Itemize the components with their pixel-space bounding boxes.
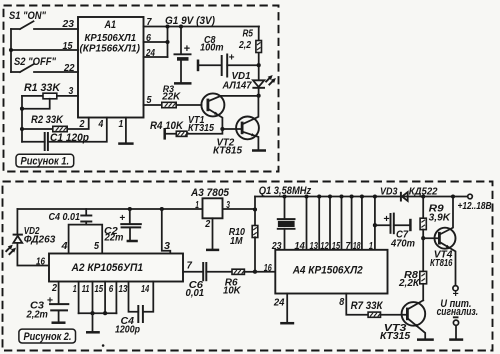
svg-text:15: 15 [94,284,103,295]
svg-text:КТ816: КТ816 [430,258,453,269]
svg-text:G1 9V (3V): G1 9V (3V) [165,15,215,27]
svg-text:23: 23 [61,19,74,30]
svg-text:2,2m: 2,2m [26,309,48,320]
svg-text:R5: R5 [243,29,254,40]
svg-text:3: 3 [69,86,74,97]
svg-text:3: 3 [164,241,171,252]
svg-text:A1: A1 [104,19,116,31]
svg-text:R4 10K: R4 10K [150,120,184,132]
svg-text:+: + [184,43,191,55]
svg-text:7: 7 [147,17,153,28]
svg-text:КТ315: КТ315 [380,331,410,342]
svg-text:(КР1566ХЛ1): (КР1566ХЛ1) [80,44,141,55]
svg-text:0,01: 0,01 [186,288,205,299]
svg-text:R2 33K: R2 33K [31,114,64,126]
svg-text:22: 22 [63,63,75,74]
svg-text:VD3: VD3 [380,186,398,197]
svg-text:ФД263: ФД263 [24,235,56,246]
svg-text:+12..18В: +12..18В [458,201,492,212]
svg-text:2,2: 2,2 [238,40,251,51]
svg-text:сигнализ.: сигнализ. [437,306,479,318]
svg-text:24: 24 [145,48,155,59]
svg-text:5: 5 [147,95,153,106]
svg-text:15: 15 [332,241,341,252]
svg-text:2: 2 [51,283,57,294]
svg-text:C1 120p: C1 120p [50,132,89,144]
svg-text:6: 6 [146,33,152,44]
svg-text:КД522: КД522 [409,186,438,197]
svg-text:1: 1 [195,200,199,211]
svg-text:АЛ147: АЛ147 [222,81,253,92]
svg-text:1: 1 [119,119,124,130]
svg-text:18: 18 [353,241,361,252]
svg-text:A3 7805: A3 7805 [190,187,230,199]
svg-text:14: 14 [294,241,305,252]
svg-text:22m: 22m [104,232,124,243]
svg-text:12: 12 [320,241,329,252]
svg-text:24: 24 [273,298,285,309]
svg-text:Рисунок 1.: Рисунок 1. [21,156,70,168]
svg-text:R1 33K: R1 33K [24,82,61,94]
svg-text:13: 13 [119,284,128,295]
svg-text:3: 3 [226,200,230,211]
svg-text:S1 "ON": S1 "ON" [9,10,47,22]
svg-text:1: 1 [73,284,77,295]
svg-text:2,2К: 2,2К [398,278,420,289]
svg-text:7: 7 [187,261,193,272]
svg-text:1: 1 [369,241,373,252]
svg-text:16: 16 [264,263,272,274]
svg-text:470m: 470m [390,239,415,250]
svg-text:R7 33К: R7 33К [351,300,384,312]
svg-text:2: 2 [79,119,85,130]
svg-text:11: 11 [82,284,90,295]
svg-text:2: 2 [204,219,210,230]
svg-text:3,9K: 3,9K [429,213,451,224]
svg-text:КР1506ХЛ1: КР1506ХЛ1 [85,33,137,44]
svg-text:C4 0.01: C4 0.01 [49,212,81,223]
svg-text:5: 5 [94,241,100,252]
svg-text:+: + [47,295,53,307]
svg-text:4: 4 [60,241,68,252]
svg-text:10K: 10K [223,286,241,297]
svg-text:S2 "OFF": S2 "OFF" [14,56,57,68]
svg-text:14: 14 [141,284,150,295]
svg-text:+: + [229,52,235,63]
svg-text:+: + [383,213,389,225]
svg-text:КТ315: КТ315 [188,123,214,134]
svg-text:16: 16 [36,257,45,268]
svg-text:Рисунок 2.: Рисунок 2. [24,331,72,343]
svg-text:1200p: 1200p [115,324,140,335]
svg-text:7: 7 [346,241,351,252]
svg-text:100m: 100m [200,43,224,54]
svg-text:4: 4 [98,119,104,130]
svg-text:A2 КР1056УП1: A2 КР1056УП1 [71,262,143,274]
svg-text:22K: 22K [161,91,181,102]
svg-text:8: 8 [339,297,345,308]
svg-text:23: 23 [271,241,282,252]
svg-text:6: 6 [109,284,114,295]
svg-text:13: 13 [310,241,319,252]
svg-text:+: + [452,288,458,300]
svg-text:1M: 1M [230,236,243,247]
svg-text:15: 15 [63,41,73,52]
svg-text:Q1 3,58MHz: Q1 3,58MHz [259,185,312,197]
svg-text:A4 КР1506ХЛ2: A4 КР1506ХЛ2 [292,265,363,277]
svg-text:+: + [119,213,125,224]
svg-text:КТ815: КТ815 [213,146,242,157]
